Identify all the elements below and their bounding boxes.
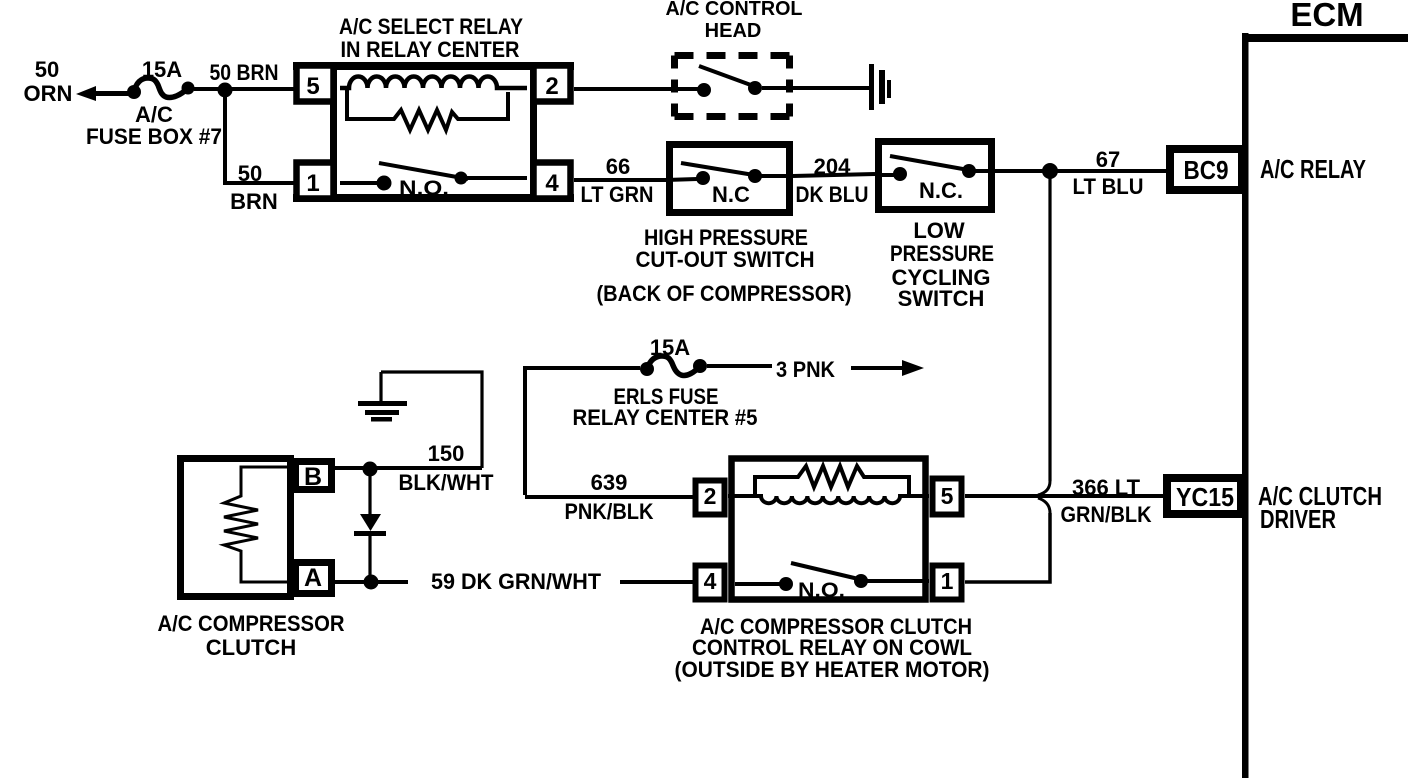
svg-text:YC15: YC15 <box>1176 482 1234 512</box>
HP switch contact dot left <box>696 171 710 185</box>
relay K2 pin 5 <box>933 479 962 515</box>
wire ERLS branch up from 639 <box>525 368 640 495</box>
label A/C SELECT RELAY IN RELAY CENTER <box>339 14 523 62</box>
wire 59 DK GRN/WHT left segment <box>335 580 408 584</box>
label HIGH PRESSURE CUT-OUT SWITCH (BACK OF COMPRESSOR) <box>597 225 852 306</box>
svg-text:HEAD: HEAD <box>705 20 762 42</box>
label A/C CLUTCH DRIVER <box>1258 481 1382 534</box>
LP switch blade N.C. <box>890 156 974 171</box>
wire B to ground corner (150 BLK/WHT) <box>335 466 482 470</box>
diode D1 across clutch <box>368 474 371 515</box>
HIGH PRESSURE CUT-OUT SWITCH box <box>670 145 790 213</box>
svg-text:A/C RELAY: A/C RELAY <box>1260 154 1366 184</box>
wire HP switch to box edge <box>755 174 793 178</box>
relay K2 switch blade N.O. <box>791 563 867 581</box>
HP switch contact dot right <box>748 169 762 183</box>
ground G1 (after control head) <box>869 64 891 110</box>
arrowhead 50 ORN (points left) <box>76 86 96 101</box>
svg-text:IN RELAY CENTER: IN RELAY CENTER <box>341 37 520 62</box>
label 366 LT GRN/BLK <box>1061 475 1152 527</box>
label N.C. <box>919 178 963 203</box>
label A/C COMPRESSOR CLUTCH <box>158 611 345 660</box>
svg-text:A: A <box>304 564 322 592</box>
svg-text:N.O.: N.O. <box>399 177 449 200</box>
svg-text:PRESSURE: PRESSURE <box>890 241 994 266</box>
label 150 BLK/WHT <box>399 441 495 495</box>
svg-text:150: 150 <box>428 441 465 466</box>
wire junction down to pin 1 (50 BRN) <box>225 90 296 183</box>
wire pin1 right and up to merge <box>965 513 1050 582</box>
wire into HP switch <box>666 179 697 180</box>
clutch pin B <box>296 462 332 490</box>
svg-text:5: 5 <box>306 73 319 100</box>
relay K2 A/C COMPRESSOR CLUTCH CONTROL RELAY box <box>732 459 926 600</box>
wire control head to ground <box>762 86 870 90</box>
svg-text:ORN: ORN <box>24 81 73 106</box>
svg-text:4: 4 <box>704 568 717 594</box>
svg-text:15A: 15A <box>650 335 690 360</box>
svg-text:366 LT: 366 LT <box>1072 475 1141 500</box>
wire merge fillet from below <box>1038 498 1050 513</box>
svg-text:66: 66 <box>606 154 630 179</box>
svg-text:50: 50 <box>238 161 262 186</box>
svg-text:B: B <box>304 463 322 491</box>
svg-text:N.O.: N.O. <box>798 579 845 602</box>
svg-text:50 BRN: 50 BRN <box>210 60 279 85</box>
svg-text:BRN: BRN <box>230 189 278 214</box>
relay K1 parallel resistor <box>347 90 508 130</box>
ECM boundary <box>1242 33 1408 778</box>
relay K1 pin 4 <box>534 163 571 199</box>
junction splice 50 BRN <box>218 83 233 98</box>
svg-text:CLUTCH: CLUTCH <box>206 635 296 660</box>
svg-text:N.C.: N.C. <box>919 178 963 203</box>
label N.C <box>712 182 750 207</box>
wire 639 PNK/BLK <box>525 495 696 499</box>
svg-text:3 PNK: 3 PNK <box>776 357 835 382</box>
label LOW PRESSURE CYCLING SWITCH <box>890 218 994 311</box>
relay K2 pin 2 <box>696 481 725 515</box>
relay K1 contact dot left <box>377 176 392 191</box>
ground G2 (clutch) <box>379 372 382 401</box>
svg-text:5: 5 <box>941 483 954 509</box>
relay K1 contact dot right <box>455 172 468 185</box>
svg-text:DRIVER: DRIVER <box>1260 504 1336 534</box>
svg-text:DK BLU: DK BLU <box>796 182 869 207</box>
wire K1 contact to pin 4 <box>461 176 527 180</box>
label 204 DK BLU <box>796 154 869 207</box>
wire junction down to clutch driver net <box>1048 171 1051 481</box>
label A/C CONTROL HEAD <box>666 0 803 42</box>
LP switch contact dot right <box>962 164 976 178</box>
label ECM <box>1290 0 1363 33</box>
svg-text:RELAY CENTER #5: RELAY CENTER #5 <box>573 405 758 430</box>
label 66 LT GRN <box>581 154 654 207</box>
wire into LP switch <box>882 173 894 177</box>
svg-text:A/C CONTROL: A/C CONTROL <box>666 0 803 20</box>
control head switch contact dot right <box>748 81 762 95</box>
HP switch blade N.C <box>681 163 760 176</box>
LOW PRESSURE CYCLING SWITCH box <box>879 142 992 210</box>
junction splice at A <box>364 575 379 590</box>
terminal YC15 <box>1167 478 1241 514</box>
relay K1 pin 2 <box>534 66 571 102</box>
svg-text:639: 639 <box>591 470 628 495</box>
svg-text:2: 2 <box>704 483 717 509</box>
svg-text:1: 1 <box>306 170 319 197</box>
svg-text:CUT-OUT SWITCH: CUT-OUT SWITCH <box>636 247 815 272</box>
svg-text:204: 204 <box>814 154 851 179</box>
label 3 PNK <box>776 357 835 382</box>
label 639 PNK/BLK <box>565 470 654 524</box>
svg-text:67: 67 <box>1096 147 1120 172</box>
wire 59 DK GRN/WHT right segment to pin 4 <box>620 580 696 584</box>
fuse F2 terminal dot right <box>693 359 707 373</box>
label 15A fuse <box>86 57 222 149</box>
svg-text:ECM: ECM <box>1290 0 1363 33</box>
wire arrow 3 PNK (points right) <box>851 366 906 370</box>
relay K1 coil winding <box>340 77 527 89</box>
svg-text:A/C SELECT RELAY: A/C SELECT RELAY <box>339 14 523 39</box>
clutch coil resistor (vertical) <box>224 467 292 582</box>
label N.O. relay K1 <box>399 177 449 200</box>
fuse F1 terminal dot left <box>127 85 141 99</box>
wire K2 contact to pin 1 <box>861 579 929 583</box>
relay K1 pin 5 <box>297 66 334 102</box>
svg-text:A/C COMPRESSOR: A/C COMPRESSOR <box>158 611 345 636</box>
label N.O. relay K2 <box>798 579 845 602</box>
svg-text:59 DK GRN/WHT: 59 DK GRN/WHT <box>431 569 602 594</box>
wire pin 2 to control head <box>574 87 698 91</box>
LP switch contact dot left <box>893 167 907 181</box>
A/C COMPRESSOR CLUTCH box <box>181 459 291 597</box>
label 50 ORN <box>24 57 73 106</box>
svg-text:50: 50 <box>35 57 59 82</box>
relay K1 pin 1 <box>297 163 334 199</box>
svg-text:FUSE BOX #7: FUSE BOX #7 <box>86 124 222 149</box>
control head switch contact dot left <box>697 83 711 97</box>
fuse F2 terminal dot left <box>640 362 654 376</box>
relay K1 A/C SELECT RELAY box <box>293 62 574 202</box>
relay K2 coil winding <box>728 496 929 503</box>
wire pin5 to YC15 (366 LT GRN/BLK) <box>965 494 1163 498</box>
fuse F1 terminal dot right <box>182 82 195 95</box>
svg-text:PNK/BLK: PNK/BLK <box>565 499 654 524</box>
relay K2 contact dot right <box>854 574 868 588</box>
label 15A ERLS FUSE RELAY CENTER #5 <box>573 335 758 430</box>
wire up and left to ground <box>381 372 482 468</box>
relay K2 pin 1 <box>933 566 962 600</box>
label 50 BRN vertical branch <box>230 161 278 214</box>
fuse F1 15A element <box>134 78 188 98</box>
terminal BC9 <box>1170 149 1242 190</box>
label A/C RELAY <box>1260 154 1366 184</box>
relay K2 pin 4 <box>696 566 725 600</box>
relay K2 contact dot left <box>779 577 793 591</box>
svg-text:LOW: LOW <box>913 218 965 243</box>
label 67 LT BLU <box>1073 147 1144 199</box>
wire 67 LT BLU to BC9 <box>995 169 1166 173</box>
wire pin 1 to K1 contact <box>340 181 378 185</box>
A/C CONTROL HEAD dashed box <box>675 56 790 117</box>
clutch pin A <box>296 563 332 594</box>
relay K2 parallel resistor <box>755 466 909 494</box>
svg-text:SWITCH: SWITCH <box>898 286 985 311</box>
wire pin 4 to K2 contact <box>735 582 780 586</box>
junction splice 67 <box>1042 163 1058 179</box>
label A/C COMPRESSOR CLUTCH CONTROL RELAY ON COWL <box>675 614 990 682</box>
control head switch blade <box>699 66 759 88</box>
svg-text:BC9: BC9 <box>1184 155 1229 185</box>
svg-text:15A: 15A <box>142 57 182 82</box>
label 59 DK GRN/WHT <box>431 569 602 594</box>
svg-text:BLK/WHT: BLK/WHT <box>399 470 495 495</box>
svg-text:1: 1 <box>941 568 954 594</box>
wire 204 DK BLU <box>793 174 875 176</box>
svg-text:4: 4 <box>545 170 559 197</box>
svg-text:LT BLU: LT BLU <box>1073 174 1144 199</box>
svg-text:(BACK OF COMPRESSOR): (BACK OF COMPRESSOR) <box>597 281 852 306</box>
wire fuse to 3 PNK <box>707 364 772 368</box>
wire LP switch to box edge <box>969 169 995 173</box>
wire 66 LT GRN pin4 to HP switch <box>574 178 670 182</box>
svg-text:2: 2 <box>545 73 558 100</box>
svg-text:N.C: N.C <box>712 182 750 207</box>
wire 50 ORN feed <box>92 91 131 96</box>
svg-text:(OUTSIDE BY HEATER MOTOR): (OUTSIDE BY HEATER MOTOR) <box>675 657 990 682</box>
svg-text:GRN/BLK: GRN/BLK <box>1061 502 1152 527</box>
label 50 BRN <box>210 60 279 85</box>
relay K1 switch blade N.O. <box>379 163 468 179</box>
junction splice at B <box>363 462 378 477</box>
svg-text:LT GRN: LT GRN <box>581 182 654 207</box>
wire merge fillet from above <box>1038 481 1050 495</box>
fuse F2 15A ERLS element <box>647 356 700 375</box>
wire fuse to relay pin 5 (50 BRN) <box>194 87 296 91</box>
